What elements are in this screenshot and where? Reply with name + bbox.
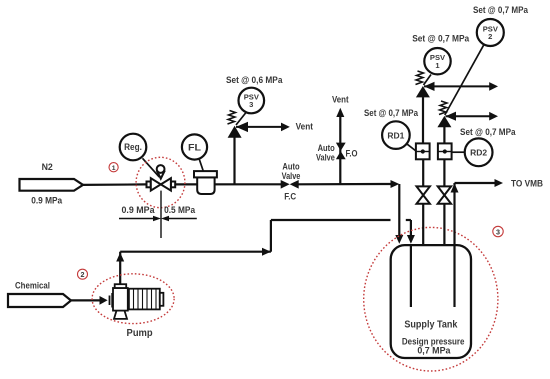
svg-text:Set @ 0,7 MPa: Set @ 0,7 MPa xyxy=(412,34,470,44)
svg-text:3: 3 xyxy=(496,228,500,237)
svg-text:RD2: RD2 xyxy=(470,148,487,158)
svg-text:3: 3 xyxy=(249,100,253,109)
svg-text:FL: FL xyxy=(188,142,202,152)
svg-text:2: 2 xyxy=(488,32,492,41)
svg-text:0,7 MPa: 0,7 MPa xyxy=(417,346,451,356)
svg-text:Supply Tank: Supply Tank xyxy=(404,319,457,331)
svg-text:Reg.: Reg. xyxy=(124,142,142,152)
svg-text:Set @ 0,7 MPa: Set @ 0,7 MPa xyxy=(364,108,419,118)
svg-text:Vent: Vent xyxy=(296,122,313,132)
svg-text:F.C: F.C xyxy=(284,191,296,201)
svg-text:0.9 MPa: 0.9 MPa xyxy=(31,195,62,205)
svg-text:TO VMB: TO VMB xyxy=(511,178,543,188)
svg-text:Valve: Valve xyxy=(282,171,301,181)
svg-text:Set @ 0,7 MPa: Set @ 0,7 MPa xyxy=(460,127,516,137)
svg-text:Valve: Valve xyxy=(316,152,335,162)
svg-text:0.9 MPa: 0.9 MPa xyxy=(122,205,155,215)
svg-text:1: 1 xyxy=(112,165,116,172)
svg-text:N2: N2 xyxy=(42,162,53,172)
svg-text:Set @ 0,6 MPa: Set @ 0,6 MPa xyxy=(226,75,283,85)
svg-text:RD1: RD1 xyxy=(387,130,404,140)
svg-text:0.5 MPa: 0.5 MPa xyxy=(164,205,195,215)
svg-text:Pump: Pump xyxy=(127,328,153,339)
svg-text:2: 2 xyxy=(81,270,85,279)
svg-text:Vent: Vent xyxy=(332,95,349,105)
svg-text:Chemical: Chemical xyxy=(15,280,50,290)
svg-text:F.O: F.O xyxy=(346,149,358,159)
svg-text:Set @ 0,7 MPa: Set @ 0,7 MPa xyxy=(473,5,529,15)
